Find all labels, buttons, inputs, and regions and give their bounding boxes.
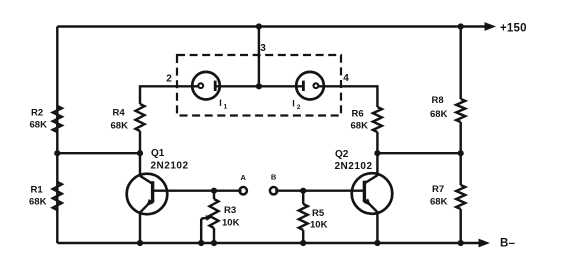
wire: right coupling line <box>377 152 460 154</box>
svg-text:A: A <box>240 173 246 182</box>
svg-text:10K: 10K <box>310 220 328 231</box>
wire: lamp line I1 to I2 <box>215 85 303 87</box>
resistor R4 <box>139 86 141 104</box>
svg-text:+150: +150 <box>500 22 527 34</box>
resistor R1 <box>53 182 62 210</box>
junction: R8 top on top rail <box>458 23 464 29</box>
junction: R3 tap on base line <box>211 188 217 194</box>
svg-text:Q1: Q1 <box>151 148 165 159</box>
wire: Q1 base to terminal A <box>153 189 242 191</box>
lamp I2 bar electrode <box>302 81 305 91</box>
wire: left bus vertical <box>56 27 58 244</box>
junction: R7 bottom on B- rail <box>458 240 464 246</box>
svg-text:68K: 68K <box>430 197 448 208</box>
resistor R6 <box>376 86 378 107</box>
junction: Q1 emitter on B- rail <box>137 240 143 246</box>
wire: terminal B to Q2 base <box>275 189 364 191</box>
resistor R8 <box>459 27 461 100</box>
wire: B- return rail (bottom) <box>57 242 479 244</box>
svg-text:R7: R7 <box>432 184 444 195</box>
svg-text:68K: 68K <box>351 121 369 132</box>
wire: node 2 segment to lamp I1 <box>139 85 199 87</box>
svg-text:2: 2 <box>166 74 172 85</box>
transistor Q2 <box>352 173 393 214</box>
neon lamp I1 envelope <box>192 72 220 100</box>
svg-text:68K: 68K <box>430 109 448 120</box>
R3 wiper arm with arrow <box>200 219 202 243</box>
resistor R2 <box>53 106 62 132</box>
junction: R3 bottom on B- rail <box>211 240 217 246</box>
svg-text:3: 3 <box>260 43 266 54</box>
svg-text:2N2102: 2N2102 <box>151 161 189 172</box>
svg-text:68K: 68K <box>111 121 129 132</box>
svg-text:B: B <box>271 173 277 182</box>
lamp I2 dot electrode <box>314 83 319 88</box>
svg-text:2N2102: 2N2102 <box>335 161 373 172</box>
svg-text:1: 1 <box>224 103 228 110</box>
junction: node 3 on lamp line <box>256 83 262 89</box>
svg-text:R6: R6 <box>352 109 364 120</box>
junction: R8/R7 midpoint <box>458 150 464 156</box>
svg-text:B–: B– <box>500 238 516 250</box>
transistor Q1 <box>127 174 168 215</box>
dashed enclosure around lamps <box>177 55 341 116</box>
junction: Q2 collector node <box>374 150 380 156</box>
resistor R3 <box>213 191 215 199</box>
lamp I1 dot electrode <box>198 83 203 88</box>
svg-text:R3: R3 <box>224 205 236 216</box>
junction: node 3 on top rail <box>256 23 262 29</box>
junction: R5 tap on base line <box>300 188 306 194</box>
svg-text:68K: 68K <box>30 120 48 131</box>
svg-text:R5: R5 <box>312 208 325 219</box>
svg-text:R1: R1 <box>31 185 44 196</box>
svg-text:4: 4 <box>343 73 349 84</box>
junction: R3 wiper on B- rail <box>198 240 204 246</box>
svg-text:I: I <box>219 98 222 108</box>
svg-text:68K: 68K <box>29 197 47 208</box>
svg-text:R2: R2 <box>31 108 43 119</box>
svg-text:Q2: Q2 <box>335 149 349 160</box>
svg-text:2: 2 <box>297 104 301 111</box>
terminal B <box>270 187 277 194</box>
junction: Q1 collector node <box>137 150 143 156</box>
svg-text:R4: R4 <box>113 108 126 119</box>
terminal A <box>240 187 247 194</box>
arrowhead to +150 terminal <box>485 22 497 31</box>
resistor R5 <box>302 191 304 204</box>
neon lamp I2 envelope <box>296 72 324 100</box>
wire: lamp I2 to node 4 / R6 corner <box>318 85 378 87</box>
wire: node 3 vertical <box>258 27 260 87</box>
junction: left bus / coupling line <box>54 150 60 156</box>
junction: R5 bottom on B- rail <box>300 240 306 246</box>
arrowhead to B- terminal <box>479 239 491 248</box>
svg-text:10K: 10K <box>222 218 240 229</box>
wire: +150 supply rail (top) <box>57 25 486 27</box>
lamp I1 bar electrode <box>214 81 217 91</box>
svg-text:R8: R8 <box>432 95 444 106</box>
svg-text:I: I <box>292 99 295 109</box>
resistor R7 <box>459 153 461 185</box>
junction: Q2 emitter on B- rail <box>374 240 380 246</box>
wire: left coupling line <box>57 152 140 154</box>
